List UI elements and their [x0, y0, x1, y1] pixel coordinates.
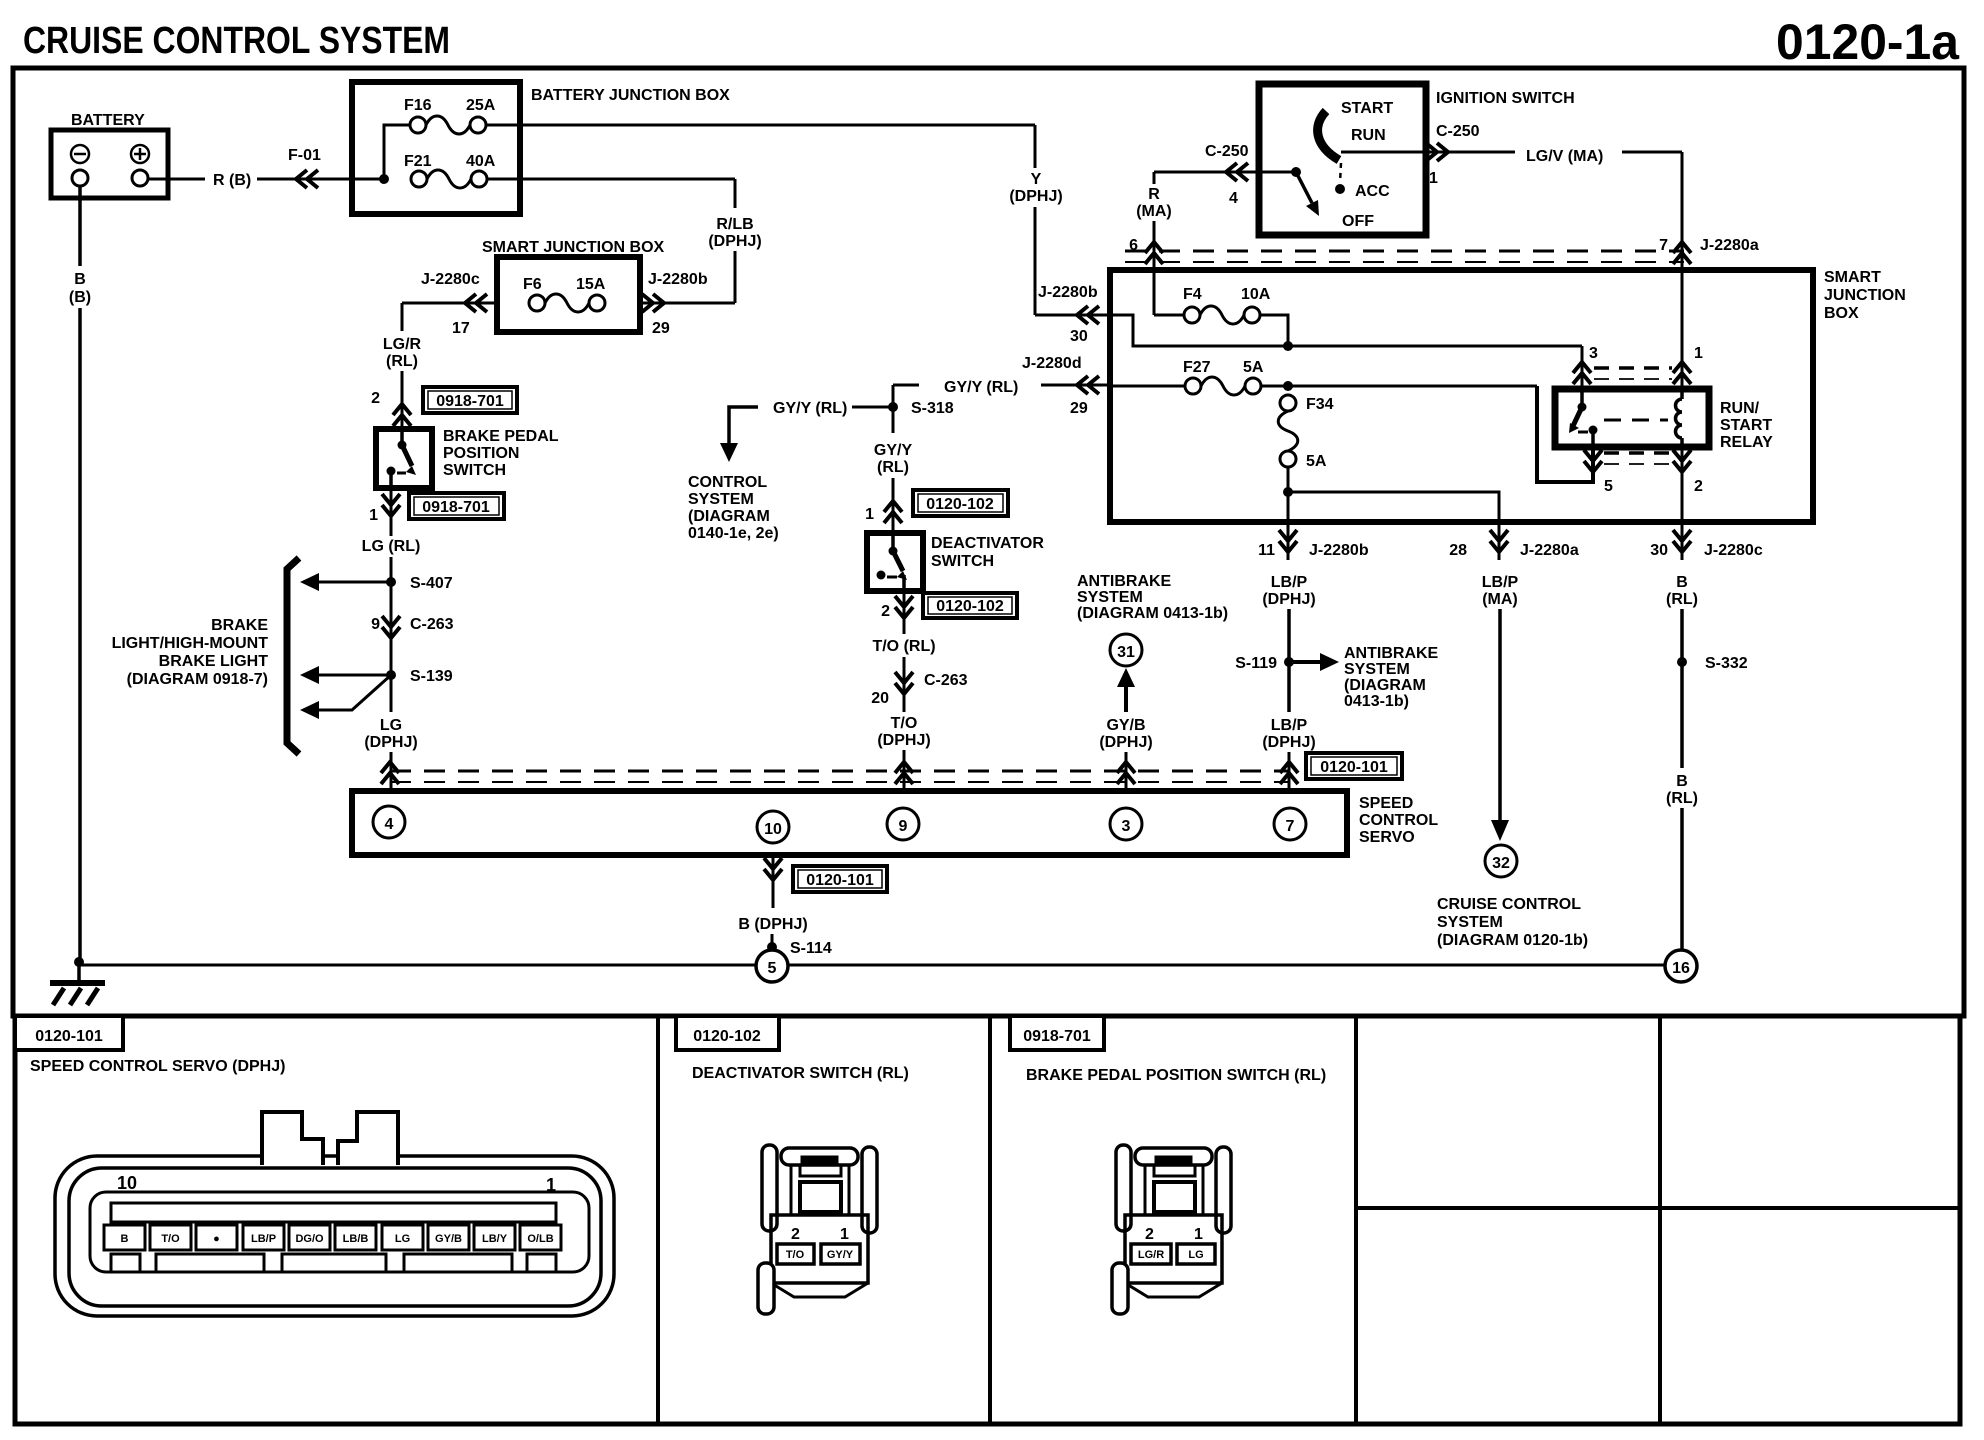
svg-text:DEACTIVATOR SWITCH (RL): DEACTIVATOR SWITCH (RL)	[692, 1065, 909, 1082]
svg-text:F16: F16	[404, 97, 432, 114]
relay pin 1 arrows	[1673, 240, 1703, 389]
svg-text:1: 1	[546, 1175, 556, 1195]
fuse F27 5A	[1183, 359, 1264, 395]
svg-text:F34: F34	[1306, 396, 1334, 413]
connector second shell	[69, 1168, 601, 1306]
pin 1 deactivator switch	[865, 501, 902, 523]
svg-text:0918-701: 0918-701	[436, 393, 504, 410]
twisted pair dashed lines top	[1125, 251, 1684, 262]
svg-text:C-263: C-263	[410, 616, 454, 633]
fuse F21 40A	[404, 153, 496, 188]
svg-text:SMART: SMART	[1824, 269, 1881, 286]
table divider 2	[988, 1016, 992, 1424]
svg-text:(MA): (MA)	[1482, 591, 1518, 608]
svg-text:SMART JUNCTION BOX: SMART JUNCTION BOX	[482, 239, 665, 256]
connector arrow 11 J-2280b	[1258, 524, 1369, 560]
node 16 circled	[1665, 950, 1697, 982]
diagram tag 0918-701 upper	[423, 387, 517, 413]
svg-text:F6: F6	[523, 276, 542, 293]
ground symbol	[50, 962, 105, 1005]
svg-text:7: 7	[1659, 237, 1668, 254]
svg-text:LB/P: LB/P	[1482, 574, 1519, 591]
svg-text:J-2280c: J-2280c	[421, 271, 480, 288]
node 5 circled	[756, 950, 788, 982]
svg-text:ANTIBRAKE: ANTIBRAKE	[1344, 645, 1439, 662]
diagram tag 0120-102 lower	[923, 593, 1017, 618]
svg-text:(DPHJ): (DPHJ)	[364, 734, 417, 751]
svg-text:5: 5	[768, 960, 777, 977]
svg-text:START: START	[1720, 417, 1772, 434]
wire battery negative to ground B (B)	[69, 186, 91, 963]
smart junction box (F6)	[482, 239, 665, 332]
wire LB/P (DPHJ) to S-119	[1262, 574, 1315, 712]
svg-text:(DIAGRAM: (DIAGRAM	[688, 508, 770, 525]
wire LG (RL)	[362, 488, 421, 712]
wire F34 output	[1283, 467, 1499, 524]
connector arrow J-2280c 17	[421, 271, 487, 337]
wire F6 to LG/R column	[383, 303, 497, 429]
svg-text:ANTIBRAKE: ANTIBRAKE	[1077, 573, 1172, 590]
svg-text:0120-101: 0120-101	[35, 1028, 103, 1045]
svg-text:(DIAGRAM 0120-1b): (DIAGRAM 0120-1b)	[1437, 932, 1588, 949]
label control system diagram	[688, 474, 779, 542]
svg-text:(RL): (RL)	[1666, 591, 1698, 608]
svg-text:B: B	[74, 271, 86, 288]
svg-text:J-2280a: J-2280a	[1700, 237, 1759, 254]
svg-text:IGNITION SWITCH: IGNITION SWITCH	[1436, 90, 1575, 107]
svg-text:0140-1e, 2e): 0140-1e, 2e)	[688, 525, 779, 542]
svg-text:F27: F27	[1183, 359, 1211, 376]
speed control servo box	[352, 791, 1438, 855]
svg-text:B: B	[1676, 773, 1688, 790]
label brake light/high-mount	[112, 617, 269, 688]
brake pedal connector pin labels	[1131, 1244, 1215, 1264]
svg-text:SPEED: SPEED	[1359, 795, 1413, 812]
svg-text:J-2280c: J-2280c	[1704, 542, 1763, 559]
svg-text:T/O (RL): T/O (RL)	[872, 638, 935, 655]
svg-text:2: 2	[791, 1226, 800, 1243]
svg-text:1: 1	[1694, 345, 1703, 362]
svg-text:CONTROL: CONTROL	[688, 474, 767, 491]
svg-text:4: 4	[385, 816, 394, 833]
connector arrow J-2280b 30	[1038, 284, 1099, 345]
svg-text:T/O: T/O	[786, 1249, 805, 1261]
svg-text:(DPHJ): (DPHJ)	[1099, 734, 1152, 751]
svg-text:29: 29	[652, 320, 670, 337]
diagram tag 0120-101 right of servo	[1306, 753, 1402, 779]
node S-119	[1235, 655, 1294, 672]
svg-text:GY/Y (RL): GY/Y (RL)	[773, 400, 847, 417]
deactivator switch	[867, 533, 1044, 591]
svg-text:S-332: S-332	[1705, 655, 1748, 672]
svg-text:17: 17	[452, 320, 470, 337]
svg-text:10: 10	[117, 1173, 137, 1193]
svg-text:CONTROL: CONTROL	[1359, 812, 1438, 829]
svg-text:(DPHJ): (DPHJ)	[1009, 188, 1062, 205]
svg-text:9: 9	[899, 818, 908, 835]
svg-text:29: 29	[1070, 400, 1088, 417]
brake pedal position switch connector drawing	[1112, 1145, 1231, 1314]
diagram tag 0120-102 upper	[913, 490, 1008, 516]
svg-text:LG/R: LG/R	[383, 336, 422, 353]
wire B (RL) to S-332	[1666, 574, 1698, 768]
connector outer shell	[55, 1156, 614, 1316]
svg-text:2: 2	[1145, 1226, 1154, 1243]
wire T/O (RL)	[872, 591, 935, 712]
svg-text:J-2280b: J-2280b	[1309, 542, 1369, 559]
battery junction box	[352, 82, 730, 214]
svg-text:SPEED CONTROL SERVO (DPHJ): SPEED CONTROL SERVO (DPHJ)	[30, 1058, 285, 1075]
relay pin 3 arrows and dashes	[1573, 345, 1672, 384]
connector inner face	[90, 1192, 589, 1272]
svg-text:(DIAGRAM 0918-7): (DIAGRAM 0918-7)	[127, 671, 268, 688]
svg-text:F21: F21	[404, 153, 432, 170]
main diagram border frame	[13, 68, 1964, 1016]
servo pin 9 circled	[887, 808, 919, 840]
connector arrow 7 J-2280a	[1659, 237, 1759, 264]
wire control system branch	[720, 400, 893, 462]
svg-text:R (B): R (B)	[213, 172, 251, 189]
wire LG (DPHJ) to servo pin 4	[364, 717, 417, 791]
connector lower slots	[111, 1254, 140, 1272]
connector key slot	[111, 1203, 556, 1222]
svg-text:BATTERY JUNCTION BOX: BATTERY JUNCTION BOX	[531, 87, 730, 104]
pin 1 brake pedal position switch	[369, 494, 400, 524]
wire LB/P (MA) to cruise control system	[1482, 574, 1519, 841]
svg-text:S-318: S-318	[911, 400, 954, 417]
node ground junction	[74, 957, 84, 967]
svg-text:LB/B: LB/B	[343, 1233, 369, 1245]
label cruise control system diagram	[1437, 896, 1588, 949]
wire battery to battery junction box R (B)	[148, 147, 384, 189]
svg-text:O/LB: O/LB	[527, 1233, 553, 1245]
svg-text:31: 31	[1117, 644, 1135, 661]
svg-text:2: 2	[1694, 478, 1703, 495]
svg-text:20: 20	[871, 690, 889, 707]
tab 0918-701	[1010, 1016, 1104, 1050]
wire LB/P (DPHJ) to servo pin 7	[1262, 717, 1315, 791]
wire relay pin 5 to F27 branch	[1537, 386, 1593, 482]
svg-text:2: 2	[371, 390, 380, 407]
bottom table frame	[15, 1016, 1960, 1424]
svg-text:SYSTEM: SYSTEM	[1344, 661, 1410, 678]
table divider 4	[1658, 1016, 1662, 1424]
svg-text:LB/Y: LB/Y	[482, 1233, 508, 1245]
svg-text:0120-102: 0120-102	[693, 1028, 761, 1045]
svg-text:16: 16	[1672, 960, 1690, 977]
twisted pair dashed lines above servo	[390, 771, 1290, 782]
svg-text:JUNCTION: JUNCTION	[1824, 287, 1906, 304]
svg-text:LG/V (MA): LG/V (MA)	[1526, 148, 1603, 165]
wire servo pin 10 output	[764, 855, 782, 908]
svg-text:B: B	[1676, 574, 1688, 591]
svg-text:S-119: S-119	[1235, 655, 1277, 672]
svg-text:CRUISE CONTROL: CRUISE CONTROL	[1437, 896, 1581, 913]
wire GY/Y (RL) from F27 to S-318	[893, 379, 1110, 407]
node S-407	[386, 575, 453, 592]
svg-text:SWITCH: SWITCH	[443, 462, 506, 479]
svg-text:J-2280b: J-2280b	[1038, 284, 1098, 301]
svg-text:RUN: RUN	[1351, 127, 1386, 144]
svg-text:(DPHJ): (DPHJ)	[1262, 734, 1315, 751]
svg-text:(RL): (RL)	[877, 459, 909, 476]
speed control servo connector drawing	[55, 1112, 614, 1316]
svg-text:BRAKE: BRAKE	[211, 617, 268, 634]
svg-text:4: 4	[1229, 190, 1238, 207]
svg-text:S-114: S-114	[790, 940, 832, 957]
svg-text:LG: LG	[380, 717, 402, 734]
wire F16 feed	[384, 125, 410, 179]
svg-text:R/LB: R/LB	[716, 216, 753, 233]
svg-text:BRAKE PEDAL: BRAKE PEDAL	[443, 428, 559, 445]
servo pin 4 circled	[373, 806, 405, 838]
relay coil	[1604, 389, 1682, 447]
svg-text:J-2280a: J-2280a	[1520, 542, 1579, 559]
svg-text:GY/Y (RL): GY/Y (RL)	[944, 379, 1018, 396]
svg-text:LG: LG	[1188, 1249, 1203, 1261]
node battery junction box feed	[379, 174, 389, 184]
svg-text:(DIAGRAM: (DIAGRAM	[1344, 677, 1426, 694]
svg-text:0120-102: 0120-102	[926, 496, 994, 513]
svg-text:32: 32	[1492, 855, 1510, 872]
svg-text:1: 1	[1194, 1226, 1203, 1243]
connector arrow 6	[1129, 237, 1163, 264]
svg-text:S-407: S-407	[410, 575, 453, 592]
svg-text:5A: 5A	[1306, 453, 1327, 470]
svg-text:GY/B: GY/B	[1106, 717, 1145, 734]
arrow diagonal to brake light from S-139	[300, 675, 391, 719]
connector arrow 30 J-2280c	[1650, 524, 1763, 560]
svg-text:LIGHT/HIGH-MOUNT: LIGHT/HIGH-MOUNT	[112, 635, 269, 652]
svg-text:30: 30	[1070, 328, 1088, 345]
connector arrow J-2280d 29	[1022, 355, 1099, 417]
svg-text:BATTERY: BATTERY	[71, 112, 145, 129]
servo pin 3 circled	[1110, 808, 1142, 840]
svg-text:0918-701: 0918-701	[422, 499, 490, 516]
svg-text:SYSTEM: SYSTEM	[688, 491, 754, 508]
svg-text:LB/P: LB/P	[251, 1233, 276, 1245]
svg-text:C-250: C-250	[1436, 123, 1480, 140]
svg-text:C-250: C-250	[1205, 143, 1249, 160]
svg-text:0120-101: 0120-101	[1320, 759, 1388, 776]
connector arrow J-2280b 29	[642, 271, 708, 337]
svg-text:5A: 5A	[1243, 359, 1264, 376]
svg-text:DG/O: DG/O	[295, 1233, 324, 1245]
svg-text:GY/B: GY/B	[435, 1233, 462, 1245]
wire T/O (DPHJ) to servo pin 9	[877, 715, 930, 791]
svg-text:ACC: ACC	[1355, 183, 1390, 200]
svg-text:T/O: T/O	[891, 715, 918, 732]
fuse F16 25A	[404, 97, 496, 134]
svg-text:RELAY: RELAY	[1720, 434, 1773, 451]
svg-text:(DPHJ): (DPHJ)	[1262, 591, 1315, 608]
node S-139	[386, 668, 453, 685]
svg-text:START: START	[1341, 100, 1393, 117]
svg-text:●: ●	[213, 1233, 220, 1245]
svg-text:SYSTEM: SYSTEM	[1437, 914, 1503, 931]
run/start relay	[1555, 389, 1773, 451]
svg-text:LG: LG	[395, 1233, 410, 1245]
node S-318	[888, 400, 954, 417]
wire R (MA) to F4	[1154, 314, 1184, 317]
svg-text:GY/Y: GY/Y	[827, 1249, 854, 1261]
deactivator switch connector drawing	[758, 1145, 877, 1314]
svg-text:0120-1a: 0120-1a	[1776, 14, 1960, 70]
arrow to brake light from S-407	[300, 573, 391, 591]
svg-text:3: 3	[1122, 818, 1131, 835]
svg-text:T/O: T/O	[161, 1233, 180, 1245]
svg-text:S-139: S-139	[410, 668, 453, 685]
relay pin 5 arrows and dashes	[1584, 450, 1671, 495]
tab 0120-101	[15, 1016, 123, 1050]
wire B (RL) to node 16	[1666, 773, 1698, 950]
svg-text:0120-102: 0120-102	[936, 598, 1004, 615]
ignition switch	[1259, 84, 1575, 235]
svg-text:3: 3	[1589, 345, 1598, 362]
svg-text:B: B	[121, 1233, 129, 1245]
arrow to brake light from S-139	[300, 666, 391, 684]
svg-text:OFF: OFF	[1342, 213, 1374, 230]
fuse F6 15A	[523, 276, 606, 312]
svg-text:5: 5	[1604, 478, 1613, 495]
brake light bracket	[287, 558, 299, 754]
wire B (DPHJ)	[738, 916, 807, 950]
table divider 3	[1354, 1016, 1358, 1424]
svg-text:0120-101: 0120-101	[806, 872, 874, 889]
svg-text:J-2280d: J-2280d	[1022, 355, 1082, 372]
svg-text:SERVO: SERVO	[1359, 829, 1415, 846]
svg-text:F4: F4	[1183, 286, 1202, 303]
svg-text:1: 1	[865, 506, 874, 523]
table divider 1	[656, 1016, 660, 1424]
table horizontal divider right	[1356, 1206, 1960, 1210]
svg-text:POSITION: POSITION	[443, 445, 519, 462]
svg-text:7: 7	[1286, 818, 1295, 835]
svg-text:1: 1	[840, 1226, 849, 1243]
svg-text:11: 11	[1258, 542, 1275, 559]
svg-text:2: 2	[881, 603, 890, 620]
wire ground bus line	[79, 964, 1664, 967]
svg-text:(B): (B)	[69, 289, 91, 306]
svg-text:SWITCH: SWITCH	[931, 553, 994, 570]
servo pin 10 circled	[757, 811, 789, 843]
connector C-263 pin 9	[371, 616, 454, 638]
relay pin 2 arrows	[1673, 447, 1703, 524]
pin 2 deactivator switch	[881, 596, 913, 620]
fuse F4 10A	[1183, 286, 1271, 324]
svg-text:C-263: C-263	[924, 672, 968, 689]
svg-text:(RL): (RL)	[1666, 790, 1698, 807]
node 31 circled	[1110, 634, 1142, 666]
wire F27 row	[1110, 381, 1537, 391]
connector C-263 pin 20	[871, 672, 967, 707]
svg-text:BOX: BOX	[1824, 305, 1859, 322]
svg-text:B (DPHJ): B (DPHJ)	[738, 916, 807, 933]
svg-text:15A: 15A	[576, 276, 606, 293]
svg-text:LB/P: LB/P	[1271, 574, 1308, 591]
wire GY/Y (RL) down to deactivator	[874, 407, 913, 533]
brake pedal position switch	[376, 428, 559, 488]
deactivator connector pin labels	[777, 1244, 860, 1264]
svg-text:40A: 40A	[466, 153, 496, 170]
relay contact	[1569, 389, 1598, 447]
svg-text:(DPHJ): (DPHJ)	[708, 233, 761, 250]
svg-text:CRUISE CONTROL SYSTEM: CRUISE CONTROL SYSTEM	[23, 20, 450, 62]
svg-text:28: 28	[1449, 542, 1467, 559]
svg-text:10: 10	[764, 821, 782, 838]
svg-text:Y: Y	[1031, 171, 1042, 188]
battery BATTERY	[51, 112, 168, 198]
svg-text:SYSTEM: SYSTEM	[1077, 589, 1143, 606]
svg-text:LB/P: LB/P	[1271, 717, 1308, 734]
svg-text:J-2280b: J-2280b	[648, 271, 708, 288]
fuse F34 5A vertical	[1278, 395, 1333, 470]
wire ignition run contact to LG/V (MA)	[1341, 123, 1682, 240]
tab 0120-102	[676, 1016, 779, 1050]
svg-text:30: 30	[1650, 542, 1668, 559]
wire GY/B (DPHJ) to servo pin 3	[1099, 717, 1152, 791]
arrow up to node 31	[1117, 668, 1135, 712]
connector arrow 28 J-2280a	[1449, 524, 1579, 560]
svg-text:1: 1	[369, 507, 378, 524]
svg-text:0413-1b): 0413-1b)	[1344, 693, 1409, 710]
pin 2 brake pedal position switch	[371, 390, 411, 426]
diagram tag 0918-701 lower	[409, 493, 504, 519]
wire F4 output to relay pin 3 and J-2280b 30	[1110, 315, 1582, 389]
svg-text:10A: 10A	[1241, 286, 1271, 303]
smart junction box (right)	[1110, 269, 1906, 522]
svg-text:25A: 25A	[466, 97, 496, 114]
svg-text:(RL): (RL)	[386, 353, 418, 370]
connector top tab right	[338, 1112, 398, 1165]
svg-text:BRAKE PEDAL POSITION SWITCH (R: BRAKE PEDAL POSITION SWITCH (RL)	[1026, 1067, 1326, 1084]
svg-text:0918-701: 0918-701	[1023, 1028, 1091, 1045]
svg-text:1: 1	[1429, 170, 1438, 187]
label antibrake system 31	[1077, 573, 1228, 622]
svg-text:RUN/: RUN/	[1720, 400, 1760, 417]
svg-text:F-01: F-01	[288, 147, 321, 164]
diagram tag 0120-101 below servo	[793, 866, 887, 892]
svg-text:R: R	[1148, 186, 1160, 203]
svg-text:(DPHJ): (DPHJ)	[877, 732, 930, 749]
arrow S-119 to antibrake system	[1289, 645, 1439, 710]
svg-text:LG (RL): LG (RL)	[362, 538, 421, 555]
svg-text:DEACTIVATOR: DEACTIVATOR	[931, 535, 1044, 552]
wire F16 output to Y (DPHJ) column	[486, 125, 1110, 315]
wire ignition feed R (MA)	[1136, 143, 1296, 315]
connector top tab left	[262, 1112, 323, 1165]
svg-text:(DIAGRAM 0413-1b): (DIAGRAM 0413-1b)	[1077, 605, 1228, 622]
node S-332	[1677, 655, 1748, 672]
wire F21 output to R/LB (DPHJ)	[487, 179, 762, 303]
servo pin 7 circled	[1274, 808, 1306, 840]
svg-text:GY/Y: GY/Y	[874, 442, 913, 459]
node 32 circled	[1485, 845, 1517, 877]
svg-text:9: 9	[371, 616, 380, 633]
svg-text:(MA): (MA)	[1136, 203, 1172, 220]
svg-text:LG/R: LG/R	[1138, 1249, 1164, 1261]
node S-114	[767, 940, 832, 957]
svg-text:BRAKE LIGHT: BRAKE LIGHT	[159, 653, 269, 670]
servo connector pin cavities	[104, 1225, 561, 1250]
